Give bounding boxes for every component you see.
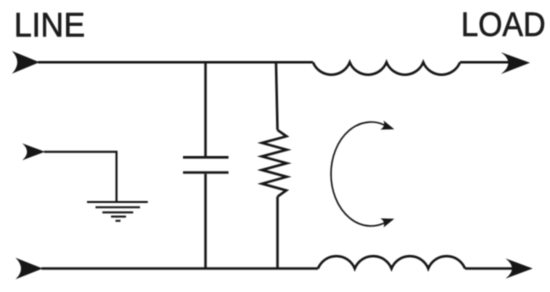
inductor L1 (top, series) bbox=[313, 62, 460, 74]
wire resistor top lead bbox=[276, 62, 278, 130]
resistor R1 (zigzag) bbox=[262, 130, 287, 197]
wire bottom rail left segment bbox=[42, 267, 319, 270]
wire bottom rail right segment bbox=[465, 267, 512, 270]
arrowhead line input (bottom left) bbox=[16, 258, 43, 280]
wire top rail right segment bbox=[460, 61, 509, 64]
inductor L2 (bottom, series) bbox=[318, 256, 465, 268]
arrowhead line input (top left) bbox=[12, 51, 40, 74]
svg-text:LOAD: LOAD bbox=[461, 6, 546, 44]
svg-text:LINE: LINE bbox=[14, 7, 85, 45]
arrowhead load output (top right) bbox=[501, 52, 530, 74]
capacitor C1 top plate bbox=[183, 156, 229, 159]
arrowhead arc bottom bbox=[380, 214, 395, 227]
arrowhead arc top bbox=[380, 121, 395, 134]
wire capacitor bottom lead bbox=[204, 174, 207, 269]
arrowhead ground branch input (middle left) bbox=[22, 143, 45, 160]
wire ground branch horizontal bbox=[44, 151, 117, 153]
wire ground branch vertical bbox=[115, 151, 117, 202]
wire capacitor top lead bbox=[204, 62, 207, 156]
wire resistor bottom lead bbox=[276, 197, 279, 269]
arrowhead load output (bottom right) bbox=[506, 258, 533, 278]
circulating current arc bbox=[331, 122, 388, 226]
wire top rail left segment bbox=[38, 61, 313, 64]
ground symbol bbox=[87, 202, 148, 221]
capacitor C1 bottom plate bbox=[183, 171, 229, 174]
